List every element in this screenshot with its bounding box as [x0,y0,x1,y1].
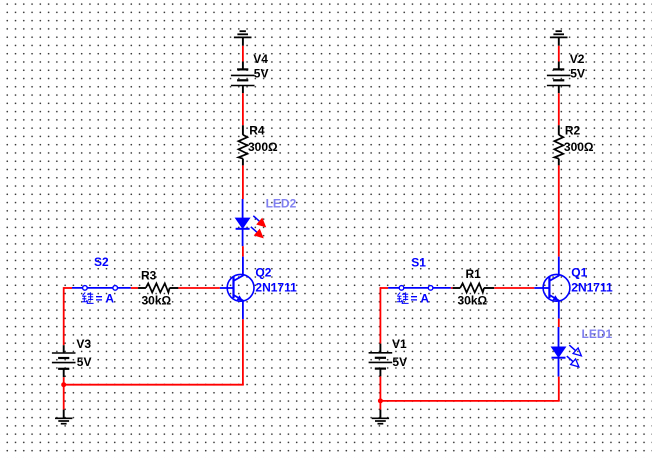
svg-text:2N1711: 2N1711 [255,281,297,295]
svg-text:300Ω: 300Ω [248,140,278,154]
junction node (V1/ground/wire) [378,398,383,403]
wire V4 to R4 [242,93,244,125]
wire switch corner to V3 [63,287,65,345]
svg-text:30kΩ: 30kΩ [458,294,488,308]
resistor R2 [558,125,560,135]
svg-text:R1: R1 [466,267,482,281]
wire switch corner to V1 [379,287,381,344]
wire Q2 emitter down and left to V3 junction [242,319,244,385]
label key = A (S1) [397,292,409,303]
svg-text:LED2: LED2 [266,197,297,211]
wire LED1 down and left to V1 junction [558,377,560,401]
battery V3 [63,345,65,353]
svg-text:V2: V2 [570,52,585,66]
svg-text:5V: 5V [77,355,92,369]
junction node (V3/ground/wire) [61,382,66,387]
wire R4 to LED2 [242,165,244,199]
wire R3 to Q2 base [178,287,219,289]
svg-text:= A: = A [411,292,430,306]
wire Q1 emitter to LED1 [558,319,560,327]
wire V1 to junction [379,376,381,401]
wire R2 to Q1 collector [558,165,560,256]
svg-text:Q2: Q2 [255,265,271,279]
LED2 emission arrow 1 [253,216,259,222]
LED1 emission arrow 2 (off, outline) [567,356,573,362]
wire V3 to junction [63,377,65,385]
wire S2 to R3 [131,287,138,289]
LED LED1 [558,327,560,347]
wire ground to V2 [558,37,560,45]
svg-text:S1: S1 [411,255,426,269]
LED1 emission arrow 1 (off, outline) [569,345,575,351]
svg-text:30kΩ: 30kΩ [142,294,172,308]
ground (top right, above V2) [556,30,562,32]
wire V2 to R2 [558,93,560,125]
wire R1 to Q1 base [494,287,534,289]
resistor R3 [138,287,146,289]
ground (bottom right) [372,417,389,419]
svg-text:5V: 5V [392,355,407,369]
LED LED2 [242,199,244,218]
battery V4 [237,68,248,70]
resistor R1 [453,287,461,289]
svg-text:V3: V3 [76,337,91,351]
wire junction to ground [63,385,65,410]
svg-text:5V: 5V [570,67,585,81]
svg-text:2N1711: 2N1711 [571,281,613,295]
battery V2 [553,68,564,70]
resistor R4 [242,125,244,135]
svg-text:R3: R3 [141,268,157,282]
svg-text:Q1: Q1 [571,265,587,279]
label key = A (S2) [82,292,94,303]
wire S1 to R1 [451,287,453,289]
svg-text:V1: V1 [392,337,407,351]
svg-text:V4: V4 [253,52,268,66]
switch S1 [388,287,451,289]
wire LED2 to Q2 collector [242,246,244,256]
ground (bottom left) [55,417,72,419]
svg-text:S2: S2 [94,255,109,269]
svg-text:LED1: LED1 [582,327,613,341]
wire ground to V4 [242,37,244,45]
switch S2 [72,287,131,289]
svg-text:R4: R4 [249,123,265,137]
svg-text:5V: 5V [254,67,269,81]
ground (top left, above V4) [240,30,246,32]
transistor Q1 2N1711 [543,274,570,301]
svg-text:R2: R2 [565,123,581,137]
battery V1 [379,344,381,353]
transistor Q2 2N1711 [227,274,254,301]
svg-text:300Ω: 300Ω [564,140,594,154]
wire junction to ground [379,401,381,410]
svg-text:= A: = A [96,292,115,306]
LED2 emission arrow 2 [251,227,257,233]
